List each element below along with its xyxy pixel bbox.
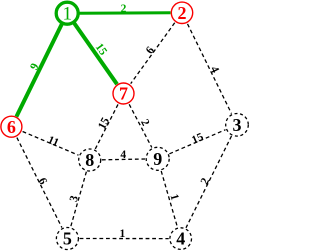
wire dashed edge 6-5 [17,138,62,228]
svg-text:7: 7 [119,84,128,104]
svg-text:15: 15 [96,115,112,131]
svg-text:4: 4 [120,149,126,161]
node 3 [226,114,249,137]
wire dashed edge 9-4 [161,171,177,227]
svg-text:1: 1 [62,3,72,24]
svg-text:4: 4 [208,65,221,76]
wire dashed edge 2-3 [188,24,232,114]
wire dashed edge 5-4 [80,238,169,240]
wire dashed edge 7-8 [95,104,118,149]
svg-text:6: 6 [7,117,16,137]
wire dashed edge 9-3 [169,130,225,154]
wire green tree edge 1-7 [74,23,117,84]
svg-text:2: 2 [121,3,127,15]
wire green tree edge 1-2 [79,11,170,14]
wire dashed edge 2-7 [131,23,175,84]
node 5 [56,228,78,250]
node 2 (fringe, red) [171,2,192,23]
wire dashed edge 8-9 [102,158,145,161]
wire dashed edge 3-4 [186,136,232,228]
node 6 (fringe, red) [1,116,22,137]
node 9 [146,147,169,170]
wire green tree edge 1-6 [16,24,62,117]
svg-text:3: 3 [233,115,242,135]
svg-text:6: 6 [36,176,49,187]
wire dashed edge 6-8 [23,132,79,156]
svg-text:11: 11 [46,134,61,149]
svg-text:2: 2 [178,3,187,23]
node 1 (tree root, green) [56,2,78,24]
svg-text:6: 6 [144,44,157,56]
node 7 (fringe, red) [113,83,134,104]
wire dashed edge 7-9 [129,104,152,147]
svg-text:1: 1 [120,228,126,240]
svg-text:5: 5 [63,229,72,249]
svg-text:2: 2 [138,117,151,128]
svg-text:4: 4 [176,229,185,249]
wire dashed edge 8-5 [71,172,87,227]
svg-text:8: 8 [85,150,94,170]
svg-text:15: 15 [190,131,206,147]
svg-text:1: 1 [167,193,180,202]
node 8 [79,149,101,171]
svg-text:9: 9 [28,61,41,72]
svg-text:3: 3 [68,194,81,203]
svg-text:9: 9 [153,149,162,169]
node 4 [170,228,192,250]
